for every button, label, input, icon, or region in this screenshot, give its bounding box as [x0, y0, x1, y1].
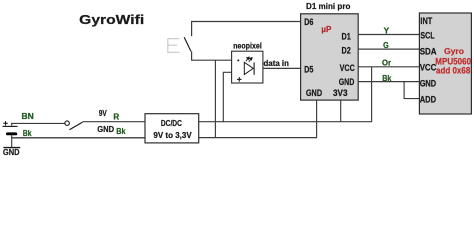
wire 3V3 rail DCDC to VCC drop: [199, 121, 372, 123]
wire VCC to 3V3 rail drop: [371, 67, 373, 122]
svg-text:Y: Y: [384, 26, 390, 35]
DC/DC converter U3 box: [145, 114, 199, 143]
battery BT1 negative plate: [6, 132, 17, 135]
wire GND rail DCDC to D1mini GND: [199, 137, 317, 139]
neopixel plus marker: [237, 77, 242, 82]
gyro U2 MPU5060 box: [419, 13, 471, 114]
ground symbol bar: [3, 147, 20, 149]
battery BT1 plus sign: [3, 121, 8, 125]
wire GND rail battery to DCDC: [11, 137, 145, 139]
wire ADD to GND branch: [404, 82, 419, 99]
svg-text:GND: GND: [3, 147, 20, 157]
wire neopixel minus GND drop: [214, 60, 216, 138]
svg-text:add 0x68: add 0x68: [436, 66, 470, 76]
svg-text:neopixel: neopixel: [233, 42, 262, 51]
svg-text:DC/DC: DC/DC: [161, 119, 182, 128]
wire neopixel plus stub: [223, 72, 231, 122]
svg-text:data in: data in: [264, 59, 290, 68]
svg-text:Bk: Bk: [23, 129, 32, 138]
svg-text:Bk: Bk: [382, 74, 392, 83]
switch S2 blade: [70, 122, 83, 130]
battery BT1 positive plate: [3, 125, 18, 127]
svg-text:D1: D1: [342, 32, 351, 42]
svg-text:µP: µP: [321, 24, 331, 34]
wire battery plus stub: [11, 123, 13, 127]
svg-text:Bk: Bk: [116, 127, 126, 136]
svg-text:3V3: 3V3: [333, 88, 348, 98]
svg-text:Or: Or: [382, 59, 391, 68]
svg-text:D1 mini pro: D1 mini pro: [306, 1, 350, 11]
wire G D2 to SDA: [358, 48, 419, 50]
svg-text:Gyro: Gyro: [444, 46, 464, 56]
wire BN battery to switch S2: [11, 122, 65, 124]
toggle switch S1 gray body: [168, 38, 180, 53]
wire D1mini bottom GND stub: [316, 100, 318, 138]
svg-text:GND: GND: [306, 88, 322, 98]
LED D1 emission arrows: [246, 57, 252, 62]
wire battery minus to ground: [11, 135, 13, 148]
switch S1 bottom contact wire to neopixel: [192, 51, 232, 60]
wire Or VCC to VCC: [358, 66, 419, 68]
svg-text:G: G: [383, 41, 389, 50]
svg-text:D6: D6: [304, 17, 313, 27]
svg-text:GND: GND: [420, 78, 437, 88]
LED D1 cathode bar: [253, 62, 255, 74]
svg-text:9V to 3,3V: 9V to 3,3V: [153, 131, 192, 140]
LED D1 triangle: [244, 62, 253, 74]
svg-text:VCC: VCC: [340, 63, 355, 73]
svg-text:D2: D2: [342, 45, 351, 55]
svg-text:SCL: SCL: [420, 31, 434, 41]
wire D1mini bottom 3V3 stub: [340, 100, 342, 122]
svg-text:BN: BN: [22, 112, 35, 121]
svg-text:R: R: [113, 112, 119, 121]
neopixel LED1 box: [232, 51, 263, 83]
switch S1 top contact wire from D6: [192, 22, 301, 37]
svg-text:GND: GND: [339, 77, 355, 87]
wire 9V switch to DCDC: [83, 121, 145, 123]
D1 mini pro U1 box: [301, 14, 359, 100]
neopixel pin1 minus dot: [237, 59, 239, 61]
wire Y D1 to SCL: [358, 34, 419, 36]
svg-text:D5: D5: [304, 64, 313, 74]
svg-text:VCC: VCC: [420, 62, 437, 72]
svg-text:9V: 9V: [99, 109, 108, 118]
svg-text:SDA: SDA: [420, 47, 437, 57]
switch S2 pivot circle: [65, 121, 70, 126]
svg-text:GND: GND: [97, 125, 114, 134]
wire data in neopixel to D5: [263, 67, 301, 69]
switch S1 blade: [184, 37, 191, 51]
svg-text:GyroWifi: GyroWifi: [79, 13, 144, 27]
svg-text:ADD: ADD: [420, 94, 437, 104]
svg-text:INT: INT: [420, 16, 432, 26]
wire Bk GND to GND: [358, 81, 419, 83]
